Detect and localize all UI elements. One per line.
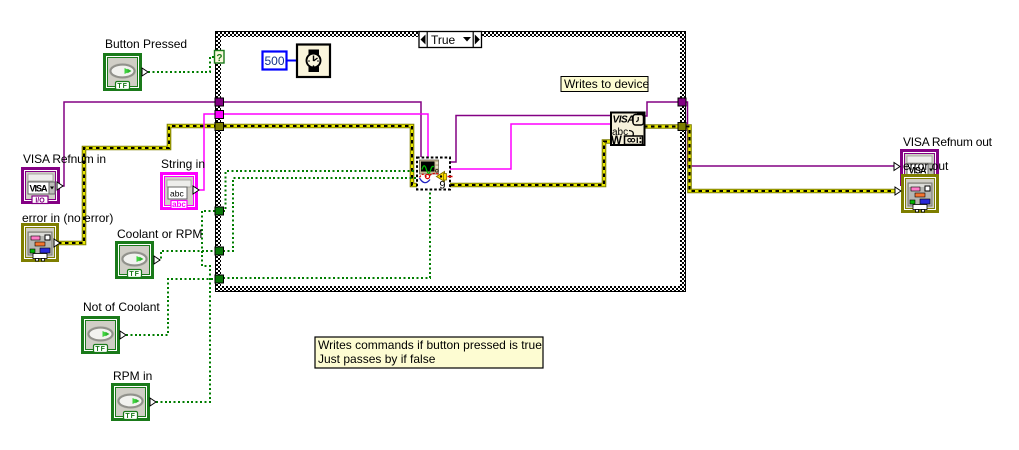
wire Not of Coolant to green tunnel C bbox=[126, 279, 215, 335]
case selector label True bbox=[419, 32, 482, 48]
terminal Coolant or RPM bbox=[115, 241, 160, 279]
wire VISA Refnum in to purple tunnel bbox=[58, 102, 215, 186]
tunnel magenta left bbox=[215, 111, 224, 119]
svg-text:500: 500 bbox=[264, 54, 284, 68]
indicator error out bbox=[895, 174, 939, 213]
svg-text:VISA: VISA bbox=[613, 115, 635, 126]
tunnel green B left bbox=[215, 247, 224, 255]
wire Coolant or RPM to green tunnel B bbox=[158, 251, 215, 260]
svg-text:Coolant or RPM: Coolant or RPM bbox=[117, 227, 202, 241]
case selector terminal ? bbox=[215, 51, 225, 65]
label VISA Refnum out bbox=[903, 135, 993, 149]
svg-text:VISA Refnum in: VISA Refnum in bbox=[23, 152, 106, 166]
indicator VISA Refnum out bbox=[894, 149, 939, 186]
label Not of Coolant bbox=[83, 300, 160, 314]
label VISA Refnum in bbox=[23, 152, 106, 166]
wire olive tunnel through subVI to VISA Write bbox=[223, 126, 611, 185]
free label comment bbox=[315, 337, 543, 368]
svg-text:Writes to device: Writes to device bbox=[564, 77, 649, 91]
wire subVI magenta out to VISA Write bbox=[450, 124, 611, 169]
svg-text:error out: error out bbox=[903, 159, 949, 173]
label error in (no error) bbox=[22, 211, 113, 225]
terminal RPM in bbox=[111, 383, 156, 421]
wire Button Pressed to selector bbox=[148, 57, 215, 72]
svg-text:VISA Refnum out: VISA Refnum out bbox=[903, 135, 993, 149]
wire purple right tunnel to VISA Refnum out bbox=[686, 102, 896, 166]
wire purple tunnel to subVI top bbox=[223, 102, 421, 157]
svg-text:String in: String in bbox=[161, 157, 205, 171]
svg-text:True: True bbox=[431, 33, 456, 47]
subVI write commands (9) bbox=[417, 158, 453, 192]
svg-text:Not of Coolant: Not of Coolant bbox=[83, 300, 160, 314]
wire RPM in to green tunnel A bbox=[156, 211, 215, 402]
wire green tunnel B to subVI input 2 bbox=[223, 178, 417, 251]
wire green tunnel A to subVI input 1 bbox=[223, 171, 417, 211]
wire String in to magenta tunnel bbox=[196, 114, 215, 190]
label Coolant or RPM bbox=[117, 227, 202, 241]
wire error in to olive tunnel bbox=[58, 126, 215, 243]
wire VISA Write olive out to right tunnel bbox=[644, 124, 678, 129]
label error out bbox=[903, 159, 949, 173]
case structure border (True case frame) bbox=[215, 31, 686, 292]
tunnel purple right bbox=[678, 98, 686, 106]
svg-text:W: W bbox=[611, 135, 622, 147]
label Writes to device bbox=[561, 77, 649, 92]
tunnel olive left bbox=[215, 123, 224, 131]
tunnel green C left bbox=[215, 275, 224, 283]
wire olive right tunnel to error out bbox=[686, 127, 896, 192]
wire green tunnel C to subVI bottom bbox=[223, 190, 430, 278]
wire magenta tunnel to subVI top bbox=[223, 114, 428, 157]
svg-text:9: 9 bbox=[439, 180, 445, 192]
svg-text:error in (no error): error in (no error) bbox=[22, 211, 113, 225]
svg-text:RPM in: RPM in bbox=[113, 369, 152, 383]
terminal Not of Coolant bbox=[81, 316, 126, 354]
label Button Pressed bbox=[105, 37, 187, 51]
wire subVI purple out to VISA Write bbox=[450, 116, 611, 163]
terminal Button Pressed bbox=[103, 53, 148, 91]
svg-text:Writes commands if button pres: Writes commands if button pressed is tru… bbox=[318, 338, 542, 352]
numeric constant 500 bbox=[263, 52, 287, 70]
wire 500 to Wait ms bbox=[287, 60, 297, 62]
svg-text:Just passes by if false: Just passes by if false bbox=[318, 352, 436, 366]
svg-text:?: ? bbox=[216, 53, 222, 64]
terminal VISA Refnum in bbox=[21, 167, 63, 204]
terminal error in bbox=[21, 223, 60, 262]
terminal String in bbox=[160, 172, 199, 210]
label RPM in bbox=[113, 369, 152, 383]
svg-text:Button Pressed: Button Pressed bbox=[105, 37, 187, 51]
wire VISA Write purple out to right tunnel bbox=[644, 102, 678, 116]
tunnel olive right bbox=[678, 123, 686, 131]
label String in bbox=[161, 157, 205, 171]
tunnel green A left bbox=[215, 207, 224, 215]
function VISA Write bbox=[611, 112, 646, 148]
function Wait (ms) bbox=[297, 45, 330, 78]
tunnel purple left bbox=[215, 98, 224, 106]
